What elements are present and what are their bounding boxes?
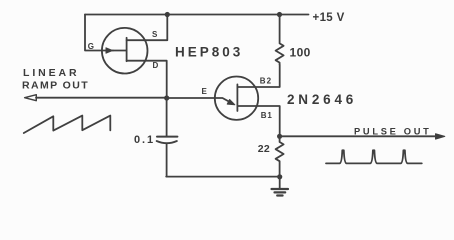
wire bottom return bbox=[166, 176, 280, 178]
transistor Q1 HEP803 body bbox=[102, 28, 148, 74]
arrowhead ramp out (hollow, pointing left) bbox=[25, 95, 37, 101]
svg-text:22: 22 bbox=[258, 143, 270, 155]
node: bottom wire junction bbox=[277, 174, 282, 179]
wire gate feedback loop bbox=[85, 15, 113, 51]
node: B1 to pulse line junction bbox=[277, 134, 282, 139]
node: drain/cap/ramp junction bbox=[164, 95, 169, 100]
ground symbol bbox=[279, 177, 281, 189]
wire linear ramp out line bbox=[36, 97, 167, 99]
capacitor C1 lower lead bbox=[166, 144, 168, 177]
svg-text:+15 V: +15 V bbox=[313, 12, 345, 24]
emitter arrow of Q2 bbox=[227, 100, 235, 105]
svg-text:0.1: 0.1 bbox=[134, 134, 155, 146]
resistor R1 100 bbox=[276, 15, 284, 65]
transistor Q2 2N2646 body bbox=[215, 77, 258, 120]
svg-text:B1: B1 bbox=[261, 111, 273, 120]
svg-text:2N2646: 2N2646 bbox=[287, 92, 357, 107]
wire drain lead D bbox=[127, 61, 167, 98]
svg-text:E: E bbox=[202, 87, 208, 96]
transistor Q2 base bar bbox=[236, 84, 238, 111]
wire source lead S bbox=[127, 15, 168, 41]
svg-text:100: 100 bbox=[290, 46, 311, 60]
svg-text:B2: B2 bbox=[260, 77, 272, 86]
svg-text:D: D bbox=[153, 61, 159, 70]
svg-text:RAMP OUT: RAMP OUT bbox=[22, 79, 89, 91]
svg-text:HEP803: HEP803 bbox=[175, 45, 243, 60]
transistor Q1 channel bar bbox=[126, 38, 128, 61]
wire pulse out line bbox=[280, 135, 437, 137]
wire top supply rail bbox=[85, 14, 309, 16]
arrowhead pulse out (pointing right) bbox=[436, 134, 445, 139]
svg-text:G: G bbox=[88, 42, 94, 51]
resistor R2 22 bbox=[276, 136, 284, 177]
capacitor C1 top plate bbox=[157, 136, 177, 138]
node: S to top rail junction bbox=[165, 12, 170, 17]
node: top rail to resistor junction bbox=[277, 12, 282, 17]
wire base-two lead B2 bbox=[237, 65, 279, 88]
wire base-one lead B1 bbox=[237, 106, 279, 136]
waveform: pulses bbox=[326, 150, 422, 163]
svg-text:LINEAR: LINEAR bbox=[23, 67, 79, 79]
wire emitter lead bbox=[167, 98, 233, 104]
transistor Q1 gate lead inside bbox=[113, 50, 127, 52]
svg-text:S: S bbox=[152, 30, 158, 39]
capacitor C1 upper lead bbox=[166, 98, 168, 136]
waveform: sawtooth (linear ramp) bbox=[24, 116, 111, 133]
transistor Q1 gate arrow bbox=[106, 48, 112, 53]
svg-text:PULSE OUT: PULSE OUT bbox=[354, 127, 432, 137]
capacitor C1 bottom plate (curved) bbox=[157, 141, 177, 143]
